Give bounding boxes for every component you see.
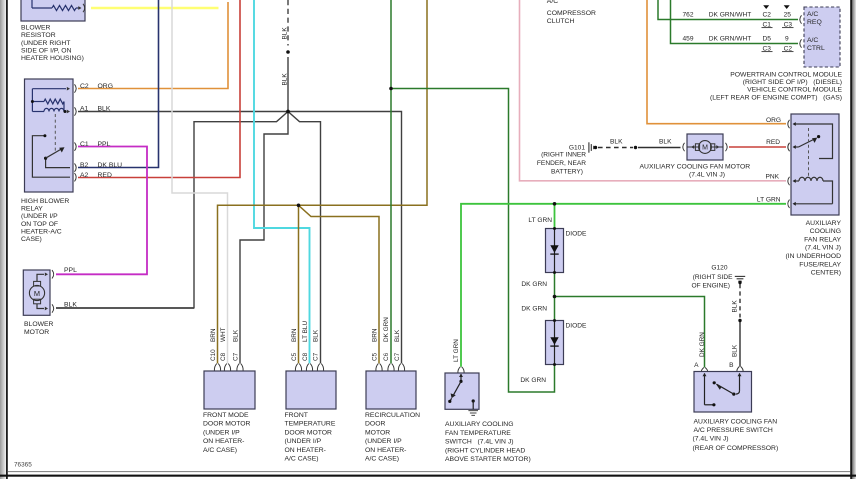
svg-text:C8: C8	[220, 352, 227, 361]
svg-text:DK GRN: DK GRN	[520, 377, 546, 384]
svg-text:BRN: BRN	[291, 328, 298, 342]
svg-text:REQ: REQ	[807, 19, 822, 26]
svg-text:ON HEATER-: ON HEATER-	[285, 447, 326, 454]
svg-text:DK BLU: DK BLU	[98, 162, 123, 169]
svg-text:RED: RED	[98, 172, 112, 179]
svg-text:AUXILIARY COOLING: AUXILIARY COOLING	[445, 421, 514, 428]
svg-text:COMPRESSOR: COMPRESSOR	[547, 10, 596, 17]
svg-text:(RIGHT INNER: (RIGHT INNER	[541, 152, 586, 159]
svg-text:BLK: BLK	[233, 329, 240, 342]
svg-text:BLOWER: BLOWER	[21, 25, 51, 32]
svg-text:A/C CASE): A/C CASE)	[365, 456, 399, 463]
svg-text:ON TOP OF: ON TOP OF	[21, 221, 58, 228]
svg-text:M: M	[702, 145, 708, 152]
svg-text:(7.4L VIN J): (7.4L VIN J)	[693, 436, 729, 443]
svg-text:RECIRCULATION: RECIRCULATION	[365, 412, 420, 419]
svg-text:BLK: BLK	[281, 73, 288, 86]
svg-text:C1: C1	[763, 22, 772, 29]
svg-text:BRN: BRN	[210, 328, 217, 342]
svg-text:POWERTRAIN CONTROL MODULE: POWERTRAIN CONTROL MODULE	[730, 71, 842, 78]
svg-text:HEATER-A/C: HEATER-A/C	[21, 228, 62, 235]
svg-text:(REAR OF COMPRESSOR): (REAR OF COMPRESSOR)	[693, 445, 779, 452]
svg-text:FRONT: FRONT	[285, 412, 308, 419]
svg-text:(UNDER I/P: (UNDER I/P	[285, 438, 322, 445]
svg-text:MOTOR: MOTOR	[24, 329, 49, 336]
svg-text:OF ENGINE): OF ENGINE)	[692, 283, 730, 290]
svg-text:25: 25	[784, 12, 792, 19]
svg-text:DK GRN/WHT: DK GRN/WHT	[709, 36, 752, 43]
svg-text:DK GRN: DK GRN	[699, 332, 706, 357]
svg-text:DK GRN: DK GRN	[383, 317, 390, 342]
svg-text:DK GRN: DK GRN	[521, 281, 547, 288]
svg-text:HEATER HOUSING): HEATER HOUSING)	[21, 55, 84, 62]
svg-text:CASE): CASE)	[21, 236, 42, 243]
svg-text:C10: C10	[210, 349, 217, 361]
svg-text:DIODE: DIODE	[566, 323, 587, 330]
svg-text:DK GRN/WHT: DK GRN/WHT	[709, 12, 752, 19]
svg-text:(RIGHT SIDE: (RIGHT SIDE	[693, 274, 733, 281]
svg-text:B: B	[729, 362, 734, 369]
svg-text:BLK: BLK	[610, 138, 623, 145]
svg-text:G120: G120	[711, 265, 727, 272]
svg-text:(RIGHT SIDE OF I/P) (DIESEL): (RIGHT SIDE OF I/P) (DIESEL)	[743, 79, 842, 86]
svg-text:AUXILIARY COOLING FAN: AUXILIARY COOLING FAN	[694, 418, 778, 425]
svg-text:C3: C3	[784, 22, 793, 29]
svg-text:PNK: PNK	[765, 173, 779, 180]
svg-text:ORG: ORG	[766, 117, 781, 124]
svg-text:C3: C3	[763, 46, 772, 53]
svg-text:9: 9	[785, 36, 789, 43]
svg-text:M: M	[34, 289, 40, 298]
svg-text:FRONT MODE: FRONT MODE	[203, 412, 249, 419]
svg-text:RESISTOR: RESISTOR	[21, 32, 56, 39]
svg-text:BLK: BLK	[394, 329, 401, 342]
svg-text:C5: C5	[372, 352, 379, 361]
svg-text:A2: A2	[80, 172, 89, 179]
svg-text:C2: C2	[763, 12, 772, 19]
svg-text:BLK: BLK	[98, 106, 111, 113]
svg-text:BLK: BLK	[313, 329, 320, 342]
svg-text:(UNDER I/P: (UNDER I/P	[365, 438, 402, 445]
svg-text:LT GRN: LT GRN	[757, 196, 781, 203]
svg-text:FAN RELAY: FAN RELAY	[804, 236, 841, 243]
svg-text:AUXILIARY COOLING FAN MOTOR: AUXILIARY COOLING FAN MOTOR	[640, 163, 751, 170]
svg-text:C2: C2	[784, 46, 793, 53]
svg-text:RELAY: RELAY	[21, 205, 43, 212]
svg-text:BLK: BLK	[732, 300, 739, 313]
svg-text:C5: C5	[291, 352, 298, 361]
svg-text:CTRL: CTRL	[807, 45, 825, 52]
svg-text:C6: C6	[383, 352, 390, 361]
svg-text:A/C CASE): A/C CASE)	[285, 456, 319, 463]
svg-text:DIODE: DIODE	[566, 231, 587, 238]
svg-text:C1: C1	[80, 141, 89, 148]
svg-text:(LEFT REAR OF ENGINE COMPT): (LEFT REAR OF ENGINE COMPT) (GAS)	[710, 94, 842, 101]
svg-text:ORG: ORG	[98, 83, 113, 90]
svg-text:TEMPERATURE: TEMPERATURE	[285, 421, 336, 428]
svg-text:A/C CASE): A/C CASE)	[203, 447, 237, 454]
svg-text:ABOVE STARTER MOTOR): ABOVE STARTER MOTOR)	[445, 456, 531, 463]
svg-text:762: 762	[682, 12, 693, 19]
svg-text:459: 459	[682, 36, 693, 43]
svg-text:LT BLU: LT BLU	[302, 321, 309, 342]
svg-text:DK GRN: DK GRN	[521, 306, 547, 313]
svg-text:A: A	[694, 362, 699, 369]
svg-text:C7: C7	[313, 352, 320, 361]
svg-text:(UNDER RIGHT: (UNDER RIGHT	[21, 40, 70, 47]
svg-text:COOLING: COOLING	[810, 228, 841, 235]
svg-text:ON HEATER-: ON HEATER-	[203, 438, 244, 445]
svg-text:BLK: BLK	[281, 27, 288, 40]
svg-text:BATTERY): BATTERY)	[551, 168, 583, 175]
svg-text:BLOWER: BLOWER	[24, 321, 54, 328]
svg-text:DOOR MOTOR: DOOR MOTOR	[203, 421, 251, 428]
svg-text:PPL: PPL	[98, 141, 111, 148]
svg-text:A/C: A/C	[807, 11, 818, 18]
svg-text:CLUTCH: CLUTCH	[547, 18, 575, 25]
svg-text:A1: A1	[80, 106, 89, 113]
svg-text:SWITCH (7.4L VIN J): SWITCH (7.4L VIN J)	[445, 439, 513, 446]
svg-text:(RIGHT CYLINDER HEAD: (RIGHT CYLINDER HEAD	[445, 447, 525, 454]
svg-text:(UNDER I/P: (UNDER I/P	[203, 429, 240, 436]
svg-text:LT GRN: LT GRN	[528, 217, 552, 224]
svg-text:B2: B2	[80, 162, 89, 169]
svg-text:A/C: A/C	[547, 0, 558, 5]
svg-text:CENTER): CENTER)	[811, 270, 841, 277]
svg-text:FAN TEMPERATURE: FAN TEMPERATURE	[445, 430, 511, 437]
svg-text:DOOR MOTOR: DOOR MOTOR	[285, 429, 333, 436]
svg-text:HIGH BLOWER: HIGH BLOWER	[21, 198, 69, 205]
svg-text:C8: C8	[302, 352, 309, 361]
svg-text:ON HEATER-: ON HEATER-	[365, 447, 406, 454]
svg-text:SIDE OF I/P, ON: SIDE OF I/P, ON	[21, 47, 72, 54]
svg-text:WHT: WHT	[220, 327, 227, 342]
svg-text:C7: C7	[233, 352, 240, 361]
svg-text:(UNDER I/P: (UNDER I/P	[21, 213, 58, 220]
svg-text:FUSE/RELAY: FUSE/RELAY	[799, 261, 841, 268]
svg-text:G101: G101	[569, 144, 585, 151]
svg-text:PPL: PPL	[64, 267, 77, 274]
svg-text:BLK: BLK	[732, 344, 739, 357]
svg-text:LT GRN: LT GRN	[453, 339, 460, 362]
svg-text:AUXILIARY: AUXILIARY	[806, 220, 842, 227]
svg-text:76365: 76365	[14, 461, 32, 468]
svg-text:C2: C2	[80, 83, 89, 90]
svg-text:BLK: BLK	[659, 138, 672, 145]
svg-text:VEHICLE CONTROL MODULE: VEHICLE CONTROL MODULE	[747, 87, 842, 94]
svg-text:(7.4L VIN J): (7.4L VIN J)	[805, 245, 841, 252]
svg-text:BRN: BRN	[372, 328, 379, 342]
svg-text:(7.4L VIN J): (7.4L VIN J)	[689, 172, 725, 179]
svg-text:RED: RED	[766, 139, 780, 146]
svg-text:DOOR: DOOR	[365, 421, 385, 428]
svg-text:A/C: A/C	[807, 37, 818, 44]
svg-text:FENDER, NEAR: FENDER, NEAR	[537, 160, 586, 167]
svg-text:C7: C7	[394, 352, 401, 361]
svg-text:(IN UNDERHOOD: (IN UNDERHOOD	[785, 253, 841, 260]
svg-text:A/C PRESSURE SWITCH: A/C PRESSURE SWITCH	[694, 427, 773, 434]
svg-text:MOTOR: MOTOR	[365, 429, 390, 436]
svg-text:BLK: BLK	[64, 302, 77, 309]
svg-text:D5: D5	[763, 36, 772, 43]
